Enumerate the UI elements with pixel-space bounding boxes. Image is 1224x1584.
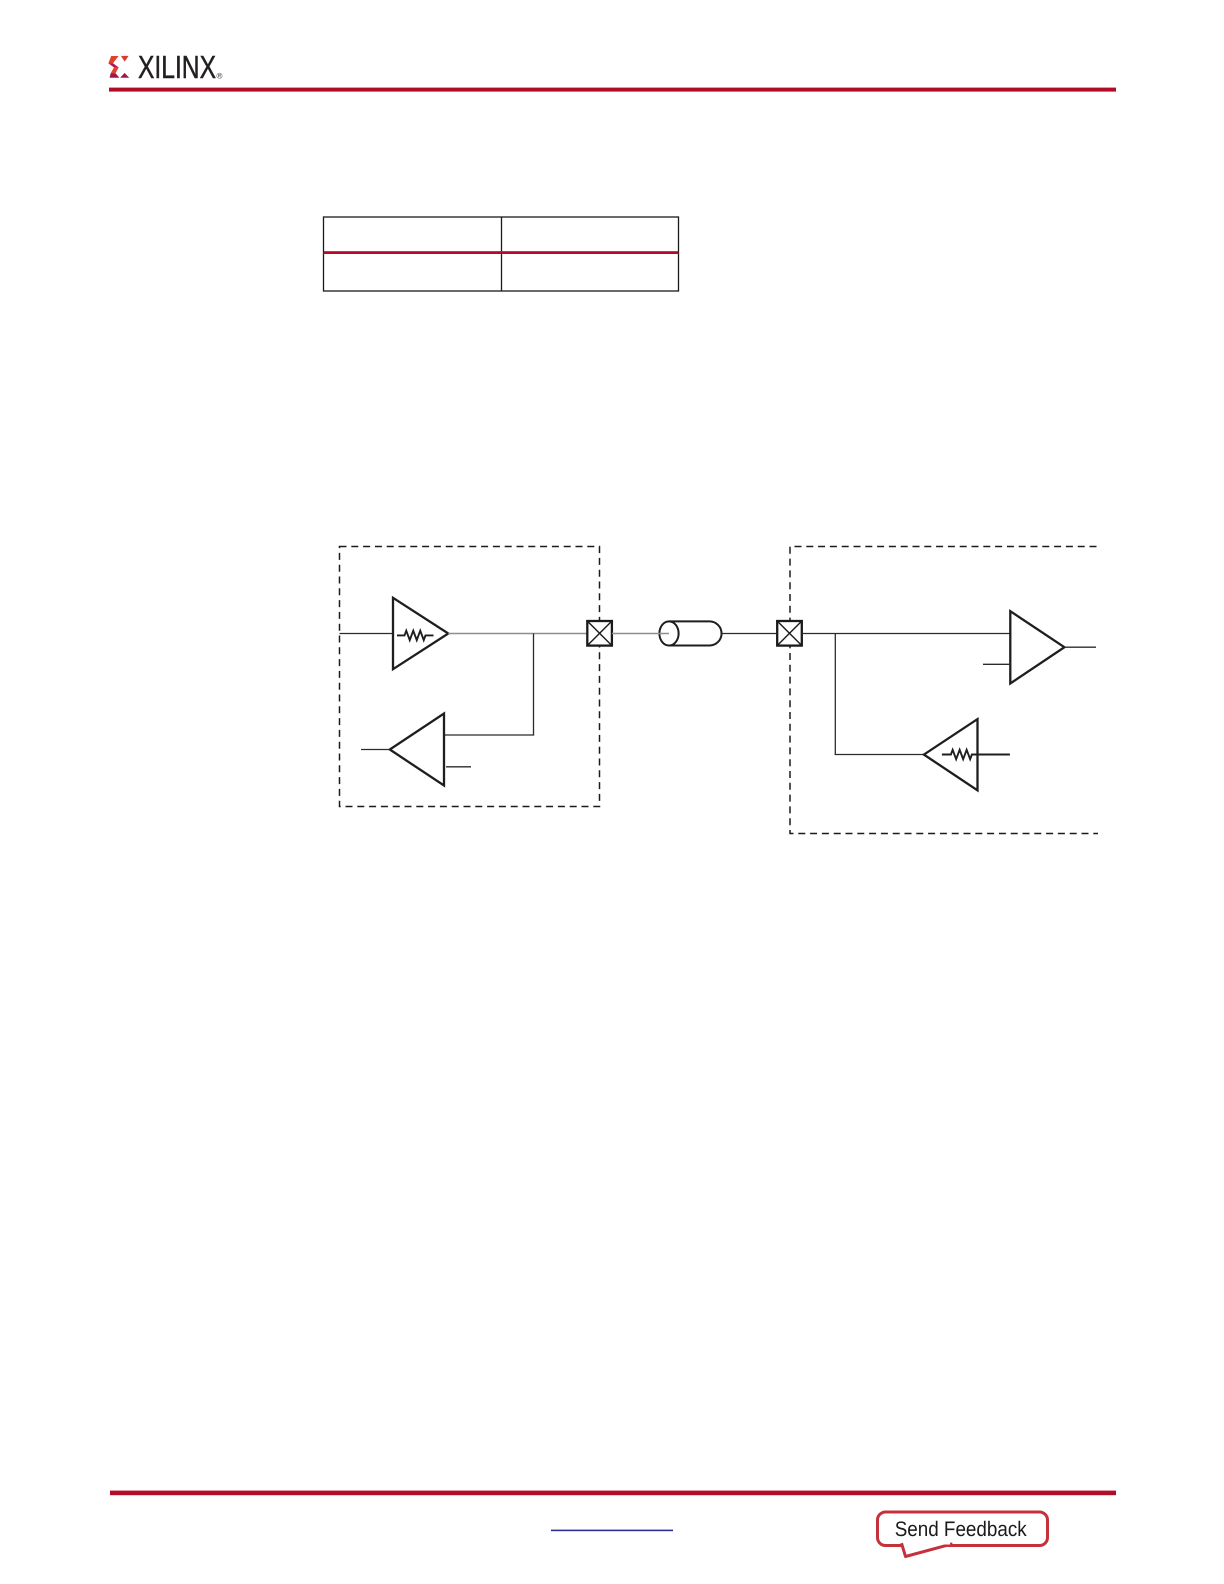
footer rule	[110, 1491, 1116, 1496]
receiver B1 enable stub	[983, 663, 1010, 665]
send feedback button bubble	[878, 1512, 1048, 1557]
wire: driver input	[340, 633, 394, 635]
document link underline	[551, 1530, 673, 1532]
svg-text:®: ®	[217, 72, 223, 81]
svg-text:XILINX: XILINX	[138, 49, 216, 85]
resistor: driver internal termination	[397, 631, 434, 640]
wire: branch down (junction at x=533.5)	[533, 634, 535, 736]
table frame	[324, 217, 679, 291]
wire: branch to receiver A2 input	[444, 734, 534, 736]
pad P2 (FPGA2 pin)	[777, 621, 802, 646]
wire: pad1 to cable (gray)	[612, 633, 669, 635]
wire: branch to terminator B2	[835, 754, 924, 756]
wire: branch down (junction at x=835.3)	[834, 634, 836, 755]
receiver buffer A2	[390, 714, 444, 786]
wire: receiver A2 output	[361, 749, 390, 751]
receiver buffer B1	[1010, 611, 1064, 683]
terminator buffer B2	[924, 719, 978, 790]
wire: driver output net (gray)	[448, 633, 588, 635]
wire: pad2 to receiver B1 input	[802, 633, 1011, 635]
driver buffer A1	[393, 598, 448, 669]
wire: receiver B1 output	[1064, 646, 1096, 648]
table header red rule	[324, 251, 679, 254]
FPGA 2 dashed boundary	[790, 547, 1098, 834]
Xilinx logo icon	[108, 56, 129, 78]
pad P1 (FPGA1 pin)	[587, 621, 612, 646]
cable (transmission line)	[659, 621, 721, 645]
svg-text:Send Feedback: Send Feedback	[895, 1518, 1027, 1541]
resistor: B2 internal termination	[942, 750, 1010, 759]
FPGA 1 dashed boundary	[340, 547, 600, 807]
Xilinx wordmark	[138, 49, 223, 85]
wire: cable to pad2	[722, 633, 778, 635]
header rule	[109, 88, 1116, 92]
receiver A2 enable stub	[446, 766, 471, 768]
